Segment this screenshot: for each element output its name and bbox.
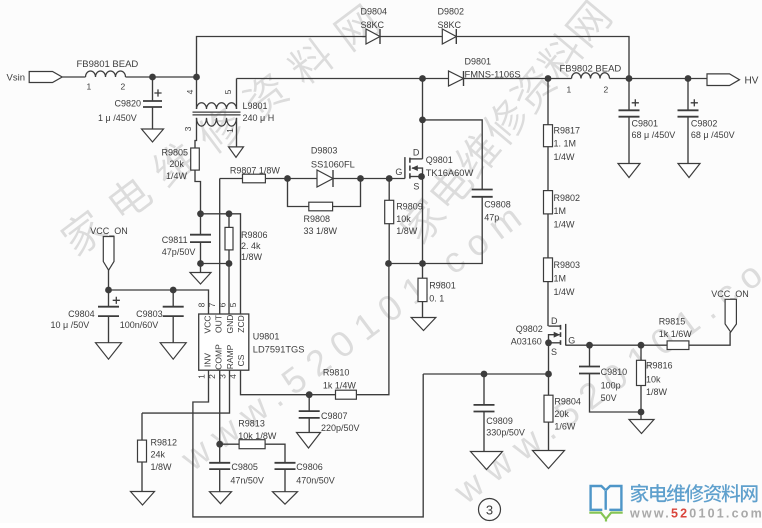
svg-text:10 μ /50V: 10 μ /50V: [51, 320, 90, 330]
svg-text:68 μ /450V: 68 μ /450V: [632, 130, 676, 140]
svg-text:33 1/8W: 33 1/8W: [304, 226, 338, 236]
svg-text:D9802: D9802: [438, 7, 465, 17]
svg-text:R9815: R9815: [659, 317, 686, 327]
svg-text:G: G: [568, 335, 575, 345]
svg-text:3: 3: [486, 503, 493, 518]
svg-text:5: 5: [228, 302, 238, 307]
svg-text:D9804: D9804: [361, 7, 388, 17]
svg-text:2: 2: [604, 85, 609, 95]
svg-text:C9802: C9802: [691, 119, 718, 129]
svg-text:20k: 20k: [169, 159, 184, 169]
svg-text:1: 1: [225, 128, 235, 133]
svg-text:1M: 1M: [554, 274, 567, 284]
svg-text:1/4W: 1/4W: [554, 287, 576, 297]
svg-text:10k 1/8W: 10k 1/8W: [238, 431, 277, 441]
svg-text:C9801: C9801: [632, 119, 659, 129]
svg-text:0. 1: 0. 1: [429, 294, 444, 304]
svg-text:C9820: C9820: [115, 99, 142, 109]
svg-text:TK16A60W: TK16A60W: [426, 168, 474, 178]
svg-text:S: S: [413, 182, 419, 192]
svg-text:1k 1/6W: 1k 1/6W: [659, 329, 693, 339]
svg-text:R9807 1/8W: R9807 1/8W: [230, 166, 281, 176]
svg-text:www.520101.com: www.520101.com: [629, 507, 762, 521]
svg-text:FMNS-1106S: FMNS-1106S: [465, 69, 521, 80]
svg-text:SS1060FL: SS1060FL: [311, 159, 355, 169]
svg-text:GND: GND: [225, 315, 235, 334]
svg-text:4: 4: [228, 374, 238, 379]
svg-text:470n/50V: 470n/50V: [296, 476, 335, 486]
svg-text:2: 2: [207, 374, 217, 379]
svg-text:R9805: R9805: [162, 148, 189, 158]
svg-text:R9808: R9808: [304, 214, 331, 224]
svg-text:R9806: R9806: [241, 230, 268, 240]
svg-text:S: S: [551, 347, 557, 357]
svg-text:R9809: R9809: [396, 202, 423, 212]
svg-text:47n/50V: 47n/50V: [230, 476, 264, 486]
svg-text:240 μ H: 240 μ H: [243, 113, 275, 123]
svg-text:4: 4: [185, 89, 195, 94]
svg-text:R9813: R9813: [238, 419, 265, 429]
svg-text:R9810: R9810: [323, 368, 350, 378]
svg-text:1/8W: 1/8W: [646, 387, 668, 397]
svg-text:C9806: C9806: [296, 462, 323, 472]
svg-text:G: G: [395, 167, 402, 177]
svg-text:C9807: C9807: [321, 411, 348, 421]
svg-text:U9801: U9801: [253, 331, 280, 341]
svg-text:D9803: D9803: [311, 146, 338, 156]
svg-text:C9805: C9805: [231, 462, 258, 472]
svg-text:1: 1: [197, 374, 207, 379]
svg-text:8: 8: [197, 302, 207, 307]
svg-text:1M: 1M: [554, 206, 567, 216]
svg-text:R9803: R9803: [554, 260, 581, 270]
svg-text:1k 1/4W: 1k 1/4W: [323, 381, 357, 391]
svg-text:68 μ /450V: 68 μ /450V: [691, 130, 735, 140]
svg-text:1/6W: 1/6W: [554, 422, 576, 432]
svg-text:1: 1: [567, 85, 572, 95]
svg-text:CS: CS: [236, 354, 246, 366]
svg-text:220p/50V: 220p/50V: [321, 423, 360, 433]
svg-text:1/8W: 1/8W: [151, 462, 173, 472]
svg-text:1/4W: 1/4W: [554, 220, 576, 230]
svg-text:D: D: [551, 316, 558, 326]
svg-text:50V: 50V: [601, 393, 617, 403]
svg-text:L9801: L9801: [243, 101, 268, 111]
svg-text:R9801: R9801: [429, 281, 456, 291]
svg-text:6: 6: [218, 302, 228, 307]
svg-text:LD7591TGS: LD7591TGS: [253, 344, 305, 354]
svg-text:C9803: C9803: [136, 309, 163, 319]
svg-text:FB9801 BEAD: FB9801 BEAD: [77, 59, 139, 70]
svg-text:R9802: R9802: [554, 193, 581, 203]
svg-text:1: 1: [87, 82, 92, 92]
svg-text:R9816: R9816: [646, 361, 673, 371]
svg-text:330p/50V: 330p/50V: [486, 428, 525, 438]
svg-text:C9810: C9810: [601, 367, 628, 377]
svg-text:VCC: VCC: [202, 316, 212, 334]
svg-text:47p: 47p: [484, 213, 499, 223]
svg-text:HV: HV: [745, 76, 759, 87]
svg-text:1/4W: 1/4W: [166, 171, 188, 181]
svg-text:FB9802 BEAD: FB9802 BEAD: [560, 64, 622, 75]
svg-text:47p/50V: 47p/50V: [162, 247, 196, 257]
svg-text:S8KC: S8KC: [361, 20, 385, 30]
svg-text:1. 1M: 1. 1M: [554, 139, 577, 149]
svg-text:D9801: D9801: [465, 57, 492, 67]
svg-text:OUT: OUT: [214, 315, 224, 333]
svg-text:100p: 100p: [601, 381, 621, 391]
svg-text:C9809: C9809: [486, 416, 513, 426]
svg-text:C9808: C9808: [484, 200, 511, 210]
svg-text:1/8W: 1/8W: [396, 226, 418, 236]
svg-text:24k: 24k: [151, 450, 166, 460]
svg-text:ZCD: ZCD: [236, 315, 246, 332]
svg-text:VCC_ON: VCC_ON: [711, 289, 749, 299]
svg-text:2. 4k: 2. 4k: [241, 241, 261, 251]
svg-text:2: 2: [121, 82, 126, 92]
svg-text:1/4W: 1/4W: [554, 152, 576, 162]
svg-text:INV: INV: [202, 353, 212, 368]
svg-text:R9817: R9817: [554, 126, 581, 136]
svg-text:COMP: COMP: [214, 344, 224, 370]
svg-text:R9804: R9804: [554, 396, 581, 406]
svg-text:S8KC: S8KC: [438, 20, 462, 30]
svg-text:Vsin: Vsin: [7, 73, 25, 84]
svg-text:10k: 10k: [646, 375, 661, 385]
svg-text:20k: 20k: [554, 409, 569, 419]
svg-text:1 μ /450V: 1 μ /450V: [98, 113, 137, 123]
svg-text:VCC_ON: VCC_ON: [90, 226, 128, 236]
svg-text:Q9802: Q9802: [516, 324, 543, 334]
svg-text:3: 3: [218, 374, 228, 379]
svg-text:100n/60V: 100n/60V: [120, 320, 159, 330]
svg-text:D: D: [413, 148, 420, 158]
svg-text:7: 7: [207, 302, 217, 307]
svg-text:R9812: R9812: [151, 438, 178, 448]
svg-text:3: 3: [183, 126, 193, 131]
svg-text:Q9801: Q9801: [426, 155, 453, 165]
svg-text:A03160: A03160: [511, 337, 542, 347]
svg-text:C9804: C9804: [68, 309, 95, 319]
svg-text:C9811: C9811: [162, 235, 188, 245]
svg-text:5: 5: [223, 89, 233, 94]
svg-text:10k: 10k: [396, 214, 411, 224]
svg-text:RAMP: RAMP: [225, 344, 235, 369]
svg-text:1/8W: 1/8W: [241, 252, 263, 262]
